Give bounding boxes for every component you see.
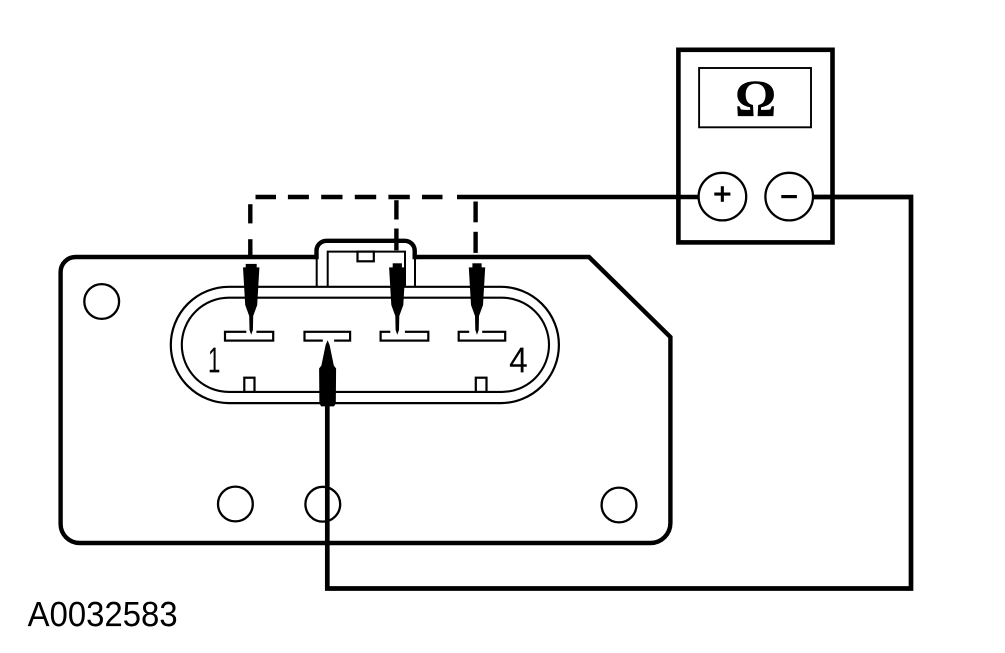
latch notch — [358, 252, 374, 262]
ohm symbol — [737, 81, 774, 116]
pin 3 slot — [381, 332, 429, 341]
latch outer hood — [317, 241, 415, 259]
figure label A0032583 — [28, 602, 177, 627]
probe arrow into pin 4 — [469, 263, 485, 334]
index tab left — [244, 378, 254, 392]
probe arrow into pin 2 from below — [319, 340, 336, 406]
probe arrow into pin 3 — [389, 263, 405, 334]
wire: lead to positive terminal — [457, 195, 700, 200]
mounting hole bottom-center — [305, 487, 340, 522]
probe arrow into pin 1 — [243, 264, 259, 335]
pin 1 slot — [225, 332, 273, 341]
wire: dashed drop to pin 3 — [394, 200, 398, 250]
mounting hole bottom-right — [602, 488, 637, 523]
index tab right — [476, 378, 487, 392]
pin number 4 — [510, 348, 527, 373]
latch skirt right — [414, 258, 416, 287]
pin 2 slot — [305, 332, 351, 341]
pin 4 slot — [459, 332, 506, 341]
pin number 1 — [210, 348, 220, 373]
latch skirt left — [316, 258, 318, 287]
wire: dashed drop to pin 4 — [473, 202, 477, 253]
mounting hole top-left — [84, 284, 119, 319]
wire: lead from negative terminal down to pin 2 probe — [327, 197, 911, 589]
cavity rim inner — [182, 298, 549, 392]
cavity rim outer — [171, 287, 559, 403]
wire: dashed test bus — [256, 195, 443, 200]
ohmmeter display window — [699, 68, 811, 127]
wire: dashed drop to pin 1 — [248, 204, 252, 258]
positive terminal — [699, 173, 747, 221]
ohmmeter case — [678, 50, 832, 243]
mounting hole bottom-left — [218, 487, 253, 522]
negative terminal — [765, 173, 813, 221]
connector body J1 outline — [61, 257, 671, 543]
latch inner outline — [328, 252, 405, 287]
